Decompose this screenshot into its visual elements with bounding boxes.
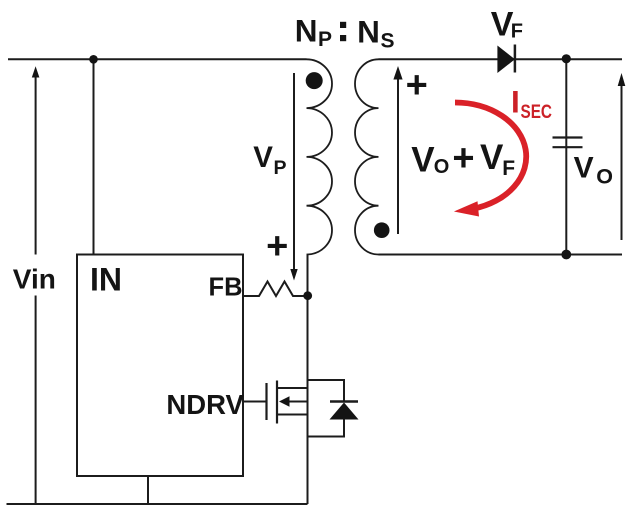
svg-text:NDRV: NDRV: [166, 389, 244, 420]
svg-text:SEC: SEC: [521, 101, 553, 123]
svg-text:O: O: [434, 156, 450, 178]
svg-text:FB: FB: [209, 274, 243, 302]
svg-text:IN: IN: [90, 261, 122, 297]
svg-text:N: N: [357, 13, 380, 49]
svg-text:P: P: [274, 157, 287, 179]
svg-text:V: V: [480, 138, 504, 177]
svg-text:I: I: [511, 83, 520, 119]
svg-text:F: F: [502, 157, 515, 180]
svg-text:F: F: [511, 21, 523, 43]
svg-text:N: N: [295, 12, 318, 48]
svg-text:P: P: [318, 28, 332, 51]
svg-text:S: S: [381, 30, 395, 53]
svg-text:O: O: [596, 165, 613, 189]
svg-text:V: V: [574, 151, 594, 184]
svg-text:V: V: [253, 141, 273, 174]
svg-text:+: +: [406, 64, 428, 106]
svg-text:V: V: [411, 141, 435, 180]
svg-text:Vin: Vin: [13, 263, 56, 294]
svg-text:+: +: [266, 225, 288, 267]
svg-text:+: +: [452, 138, 474, 180]
